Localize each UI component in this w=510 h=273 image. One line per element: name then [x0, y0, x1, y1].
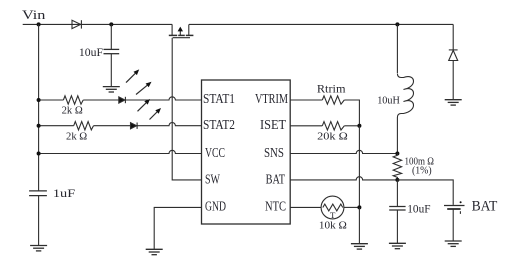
resistor R4 20k: [290, 122, 359, 130]
resistor R3 Rtrim: [290, 96, 359, 126]
junction dot VCC row: [37, 152, 41, 156]
value label R1 2k ohm: [62, 104, 83, 116]
thermistor RT1: [290, 196, 359, 219]
svg-text:STAT1: STAT1: [203, 91, 235, 106]
svg-text:2k Ω: 2k Ω: [62, 104, 83, 116]
pin label SNS: [264, 145, 284, 160]
resistor R2 2k: [39, 122, 131, 130]
wire top rail right segment: [189, 23, 453, 25]
node BAT label: [472, 199, 498, 215]
junction dot NTC row: [357, 205, 361, 209]
pin label NTC: [265, 199, 286, 214]
svg-text:10uF: 10uF: [79, 47, 103, 59]
svg-text:1uF: 1uF: [53, 188, 75, 200]
junction dot at Vin column: [37, 22, 41, 26]
capacitor C1 lead bottom: [110, 54, 112, 87]
ground below C1: [103, 87, 120, 92]
pin label VTRIM: [255, 91, 288, 106]
pin label STAT2: [203, 117, 235, 132]
capacitor C1 lead top: [110, 24, 112, 49]
junction dot STAT1 row: [37, 98, 41, 102]
wire left vertical Vin column: [38, 24, 40, 191]
pin label STAT1: [203, 91, 235, 106]
diode D4 output: [449, 24, 458, 99]
ground below GND pin: [146, 249, 163, 254]
pin label VCC: [205, 145, 225, 160]
LED D3: [131, 123, 138, 129]
capacitor C2 1uF: [29, 191, 47, 196]
wire BAT row with hop: [290, 177, 397, 180]
value label R5 100m ohm: [405, 156, 434, 168]
wire R2 LED to STAT2 pin with hop: [137, 123, 201, 126]
value label Rtrim: [317, 84, 346, 96]
ground below NTC column: [351, 244, 368, 249]
svg-text:VCC: VCC: [205, 145, 225, 160]
op-amp U1 charger IC box: [202, 80, 291, 224]
svg-text:20k Ω: 20k Ω: [317, 131, 348, 143]
junction dot SNS node: [395, 152, 399, 156]
pin label ISET: [260, 117, 286, 132]
junction dot STAT2 row: [37, 124, 41, 128]
svg-text:SW: SW: [205, 171, 220, 186]
pin label BAT: [266, 171, 285, 186]
node Vin label: [22, 8, 46, 22]
svg-text:NTC: NTC: [265, 199, 286, 214]
wire GND pin to ground: [154, 207, 201, 249]
svg-text:SNS: SNS: [264, 145, 284, 160]
LED D2 light arrows: [126, 69, 152, 94]
svg-text:Vin: Vin: [22, 8, 46, 22]
svg-text:(1%): (1%): [412, 165, 432, 176]
transistor Q1 MOSFET: [169, 24, 194, 37]
junction dot ISET row: [357, 124, 361, 128]
wire BAT node to battery: [397, 180, 453, 205]
junction dot BAT node: [395, 178, 399, 182]
svg-text:10k Ω: 10k Ω: [319, 220, 347, 232]
capacitor C3 10uF: [389, 207, 405, 211]
value label R5 tolerance: [412, 165, 432, 176]
value label R4 20k ohm: [317, 131, 348, 143]
ground below battery: [445, 241, 462, 246]
resistor R5 100m sense: [393, 154, 401, 180]
svg-text:STAT2: STAT2: [203, 117, 235, 132]
thermistor T mark: [330, 210, 336, 220]
svg-text:BAT: BAT: [266, 171, 285, 186]
svg-text:2k Ω: 2k Ω: [66, 131, 87, 143]
svg-text:BAT: BAT: [472, 199, 498, 215]
wire MOSFET drop to SW pin: [172, 38, 201, 180]
pin label GND: [205, 199, 226, 214]
resistor R1 2k: [39, 96, 119, 104]
ground below C2: [30, 246, 47, 251]
battery BT1: [444, 201, 465, 241]
value label RT1 10k ohm: [319, 220, 347, 232]
ground below C3: [389, 243, 406, 248]
svg-text:10uH: 10uH: [377, 95, 400, 107]
junction dot at C1 column: [109, 22, 113, 26]
svg-text:ISET: ISET: [260, 117, 286, 132]
pin label SW: [205, 171, 220, 186]
capacitor C2 lead bottom: [38, 196, 40, 246]
ground below D4: [445, 100, 462, 105]
svg-text:GND: GND: [205, 199, 226, 214]
value label L1 10uH: [377, 95, 400, 107]
LED D2: [119, 97, 126, 103]
capacitor C1 10uF: [104, 49, 120, 53]
value label R2 2k ohm: [66, 131, 87, 143]
svg-text:T: T: [330, 210, 336, 220]
capacitor C3 lead top: [396, 180, 398, 207]
inductor L1 10uH: [397, 24, 413, 153]
junction dot at inductor column: [395, 22, 399, 26]
wire SNS row with hop: [290, 150, 397, 153]
value label C2 1uF: [53, 188, 75, 200]
capacitor C3 lead bottom: [396, 210, 398, 243]
value label C1 10uF: [79, 47, 103, 59]
wire NTC junction down: [358, 207, 360, 243]
wire VCC row with hop: [39, 150, 202, 153]
LED D3 light arrows: [138, 99, 162, 120]
svg-text:10uF: 10uF: [407, 204, 430, 216]
wire top rail left segment: [23, 23, 173, 25]
value label C3 10uF: [407, 204, 430, 216]
wire Rtrim column down to NTC row: [358, 126, 360, 208]
diode D1 input: [72, 20, 81, 28]
wire R1 LED to STAT1 pin with hop: [125, 97, 201, 100]
svg-text:VTRIM: VTRIM: [255, 91, 288, 106]
svg-text:Rtrim: Rtrim: [317, 84, 346, 96]
